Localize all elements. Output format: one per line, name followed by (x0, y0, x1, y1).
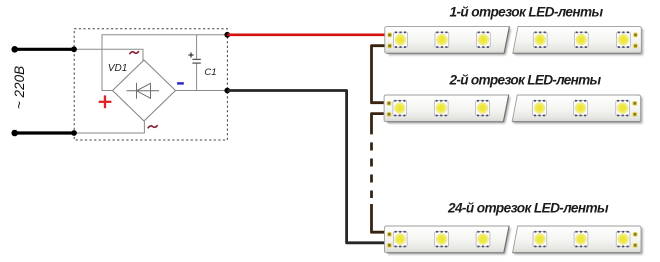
symbol ~ top (AC side) (130, 52, 139, 54)
wire red plus feed to strip 1 (227, 33, 389, 36)
LED strip segment 24 (385, 226, 643, 254)
capacitor C1 (196, 35, 198, 91)
svg-text:1-й отрезок LED-ленты: 1-й отрезок LED-ленты (449, 5, 603, 20)
symbol + output (red) (99, 95, 112, 108)
junction dot top-left (71, 46, 77, 52)
LED strip segment 1 (385, 27, 643, 55)
svg-text:C1: C1 (204, 67, 216, 78)
terminal dot AC bottom (11, 130, 18, 137)
wire AC bottom inside box to bridge (74, 121, 144, 133)
junction dot plus output (224, 32, 230, 38)
symbol - output (blue) (177, 82, 184, 84)
diode symbol inside VD1 (127, 83, 160, 99)
wire black minus return from strip 24 (227, 91, 389, 243)
bridge rectifier VD1 diamond (113, 60, 176, 121)
wire brown link into strip 24 (372, 204, 389, 232)
dashed enclosure (power supply box) (74, 29, 227, 140)
wire brown dashed continuation (370, 142, 373, 198)
svg-text:~ 220В: ~ 220В (12, 66, 27, 109)
svg-text:24-й отрезок LED-ленты: 24-й отрезок LED-ленты (447, 201, 609, 216)
svg-text:2-й отрезок LED-ленты: 2-й отрезок LED-ленты (449, 72, 602, 87)
wire AC top inside box to bridge (74, 49, 143, 60)
wire AC line bottom (220V input) (15, 131, 74, 134)
wire negative rail (176, 90, 228, 92)
wire brown link strip1 to strip2 (372, 46, 389, 103)
junction dot minus output (224, 88, 230, 94)
symbol ~ bottom (AC side) (148, 126, 157, 128)
LED strip segment 2 (384, 95, 642, 123)
terminal dot AC top (11, 46, 18, 53)
svg-text:VD1: VD1 (108, 63, 127, 74)
wire positive rail (102, 35, 227, 91)
capacitor polarity + (188, 52, 193, 57)
wire AC line top (220V input) (15, 48, 74, 51)
wire brown link strip2 downward (solid part) (372, 114, 389, 135)
junction dot bottom-left (71, 130, 77, 136)
